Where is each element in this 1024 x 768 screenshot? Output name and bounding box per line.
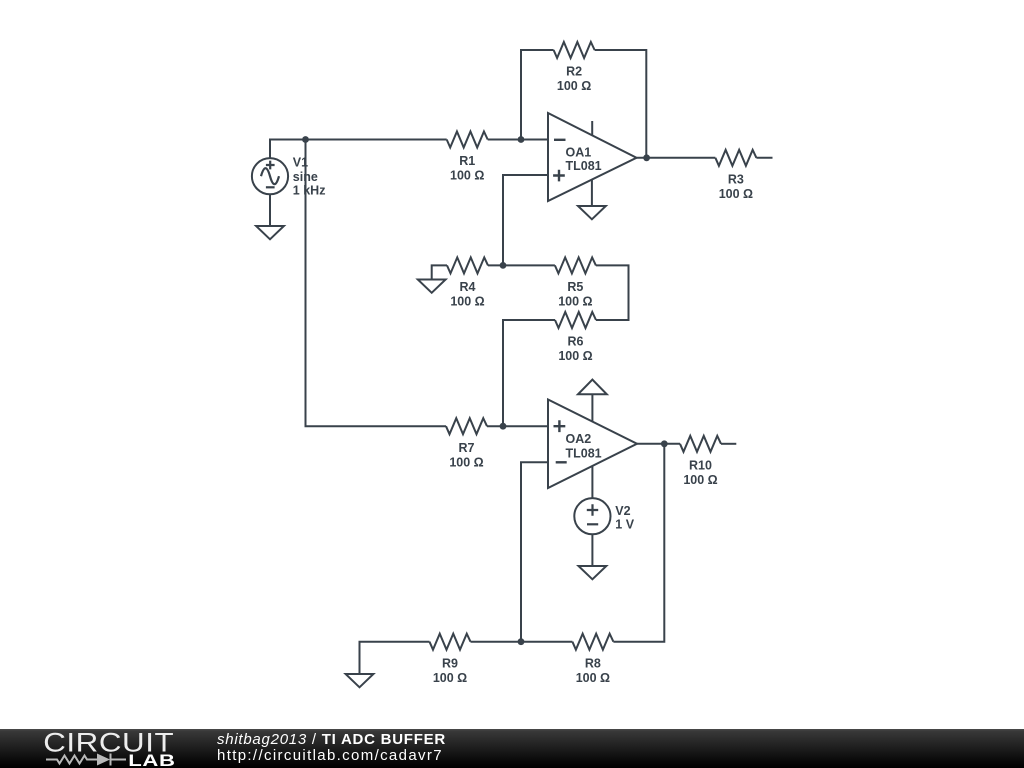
resistor R10 bbox=[680, 436, 721, 452]
svg-text:R8: R8 bbox=[585, 656, 601, 670]
svg-text:R3: R3 bbox=[728, 172, 744, 186]
node R7/OA2 plus bbox=[500, 423, 507, 430]
node R4/R5 bbox=[500, 262, 507, 269]
op-amp OA2 bbox=[548, 400, 637, 489]
svg-text:R7: R7 bbox=[459, 441, 475, 455]
svg-text:R6: R6 bbox=[568, 335, 584, 349]
wire R4 to ground bbox=[432, 265, 447, 279]
wire R4 to R5 bbox=[488, 264, 555, 266]
node V1 branch bbox=[302, 136, 309, 143]
resistor R4 bbox=[447, 257, 488, 273]
wire OA2 output to R10 bbox=[637, 443, 680, 445]
wire V1 branch down to R7 bbox=[306, 140, 447, 427]
ground under V1 bbox=[256, 226, 284, 239]
wire R3 open stub bbox=[756, 157, 772, 159]
svg-text:TL081: TL081 bbox=[566, 447, 602, 461]
resistor R1 bbox=[447, 132, 488, 148]
svg-text:100 Ω: 100 Ω bbox=[719, 187, 753, 201]
svg-text:R2: R2 bbox=[566, 65, 582, 79]
wire R8 feedback up to OA2 output bbox=[613, 444, 664, 642]
svg-text:100 Ω: 100 Ω bbox=[433, 671, 467, 685]
wire R1 to OA1 minus input bbox=[488, 139, 548, 141]
wire R9 to R8 bbox=[471, 641, 573, 643]
ground under OA1 bbox=[578, 206, 606, 219]
svg-text:100 Ω: 100 Ω bbox=[576, 671, 610, 685]
CircuitLab logo bbox=[0, 729, 210, 768]
svg-text:R4: R4 bbox=[460, 280, 476, 294]
svg-text:V2: V2 bbox=[615, 504, 630, 518]
wire R6 left down to R7 node bbox=[503, 320, 555, 426]
resistor R5 bbox=[555, 257, 596, 273]
wire R10 open stub bbox=[721, 443, 736, 445]
wire V1 top to R1 bbox=[270, 140, 447, 159]
voltage source V1 bbox=[252, 158, 288, 194]
node OA1 minus bbox=[518, 136, 525, 143]
svg-text:sine: sine bbox=[293, 170, 318, 184]
wire R5 right loop to R6 bbox=[596, 265, 629, 320]
ground left of R4 bbox=[418, 280, 446, 293]
svg-text:R5: R5 bbox=[567, 280, 583, 294]
wire OA2 minus input down to R8/R9 node bbox=[521, 462, 548, 641]
svg-text:R10: R10 bbox=[689, 458, 712, 472]
resistor R9 bbox=[430, 634, 471, 650]
resistor R8 bbox=[572, 634, 613, 650]
node R8/R9 bbox=[518, 638, 525, 645]
wire R2 loop left bbox=[521, 50, 554, 140]
ground under V2 bbox=[579, 566, 607, 579]
power VCC symbol above OA2 bbox=[578, 380, 607, 395]
resistor R3 bbox=[715, 150, 756, 166]
svg-text:V1: V1 bbox=[293, 156, 308, 170]
logo resistor-diode glyph bbox=[46, 754, 126, 766]
wire R2 loop right bbox=[595, 50, 647, 158]
voltage source V2 bbox=[574, 498, 610, 534]
svg-text:1 kHz: 1 kHz bbox=[293, 184, 326, 198]
svg-text:100 Ω: 100 Ω bbox=[449, 455, 483, 469]
wire OA2 V- to V2 bbox=[591, 466, 593, 498]
svg-text:LAB: LAB bbox=[128, 752, 175, 768]
node OA1 output bbox=[643, 154, 650, 161]
node OA2 output bbox=[661, 440, 668, 447]
wire OA1 output to R3 bbox=[637, 157, 716, 159]
resistor R2 bbox=[554, 42, 595, 58]
ground left of R9 bbox=[346, 674, 374, 687]
wire OA1 V- to ground bbox=[591, 180, 593, 207]
svg-text:1 V: 1 V bbox=[615, 517, 634, 531]
svg-text:OA1: OA1 bbox=[566, 146, 592, 160]
wire V2 to ground bbox=[591, 534, 593, 566]
wire V1 to ground bbox=[269, 194, 271, 226]
wire OA1 plus input down to R4/R5 node bbox=[503, 175, 548, 265]
svg-text:100 Ω: 100 Ω bbox=[683, 473, 717, 487]
wire OA1 V+ stub bbox=[591, 121, 593, 135]
footer bar bbox=[0, 729, 1024, 768]
svg-text:100 Ω: 100 Ω bbox=[558, 349, 592, 363]
svg-text:100 Ω: 100 Ω bbox=[450, 169, 484, 183]
svg-text:OA2: OA2 bbox=[566, 432, 592, 446]
resistor R6 bbox=[555, 312, 596, 328]
footer title text bbox=[217, 732, 446, 763]
svg-text:R9: R9 bbox=[442, 656, 458, 670]
wire R9 to ground bbox=[360, 642, 430, 674]
svg-text:100 Ω: 100 Ω bbox=[450, 295, 484, 309]
svg-text:TL081: TL081 bbox=[566, 159, 602, 173]
op-amp OA1 bbox=[548, 113, 637, 201]
resistor R7 bbox=[446, 418, 487, 434]
svg-text:R1: R1 bbox=[459, 154, 475, 168]
svg-text:100 Ω: 100 Ω bbox=[558, 295, 592, 309]
wire R7 to OA2 plus input bbox=[487, 425, 548, 427]
wire OA2 V+ stub bbox=[591, 394, 593, 421]
svg-text:100 Ω: 100 Ω bbox=[557, 79, 591, 93]
